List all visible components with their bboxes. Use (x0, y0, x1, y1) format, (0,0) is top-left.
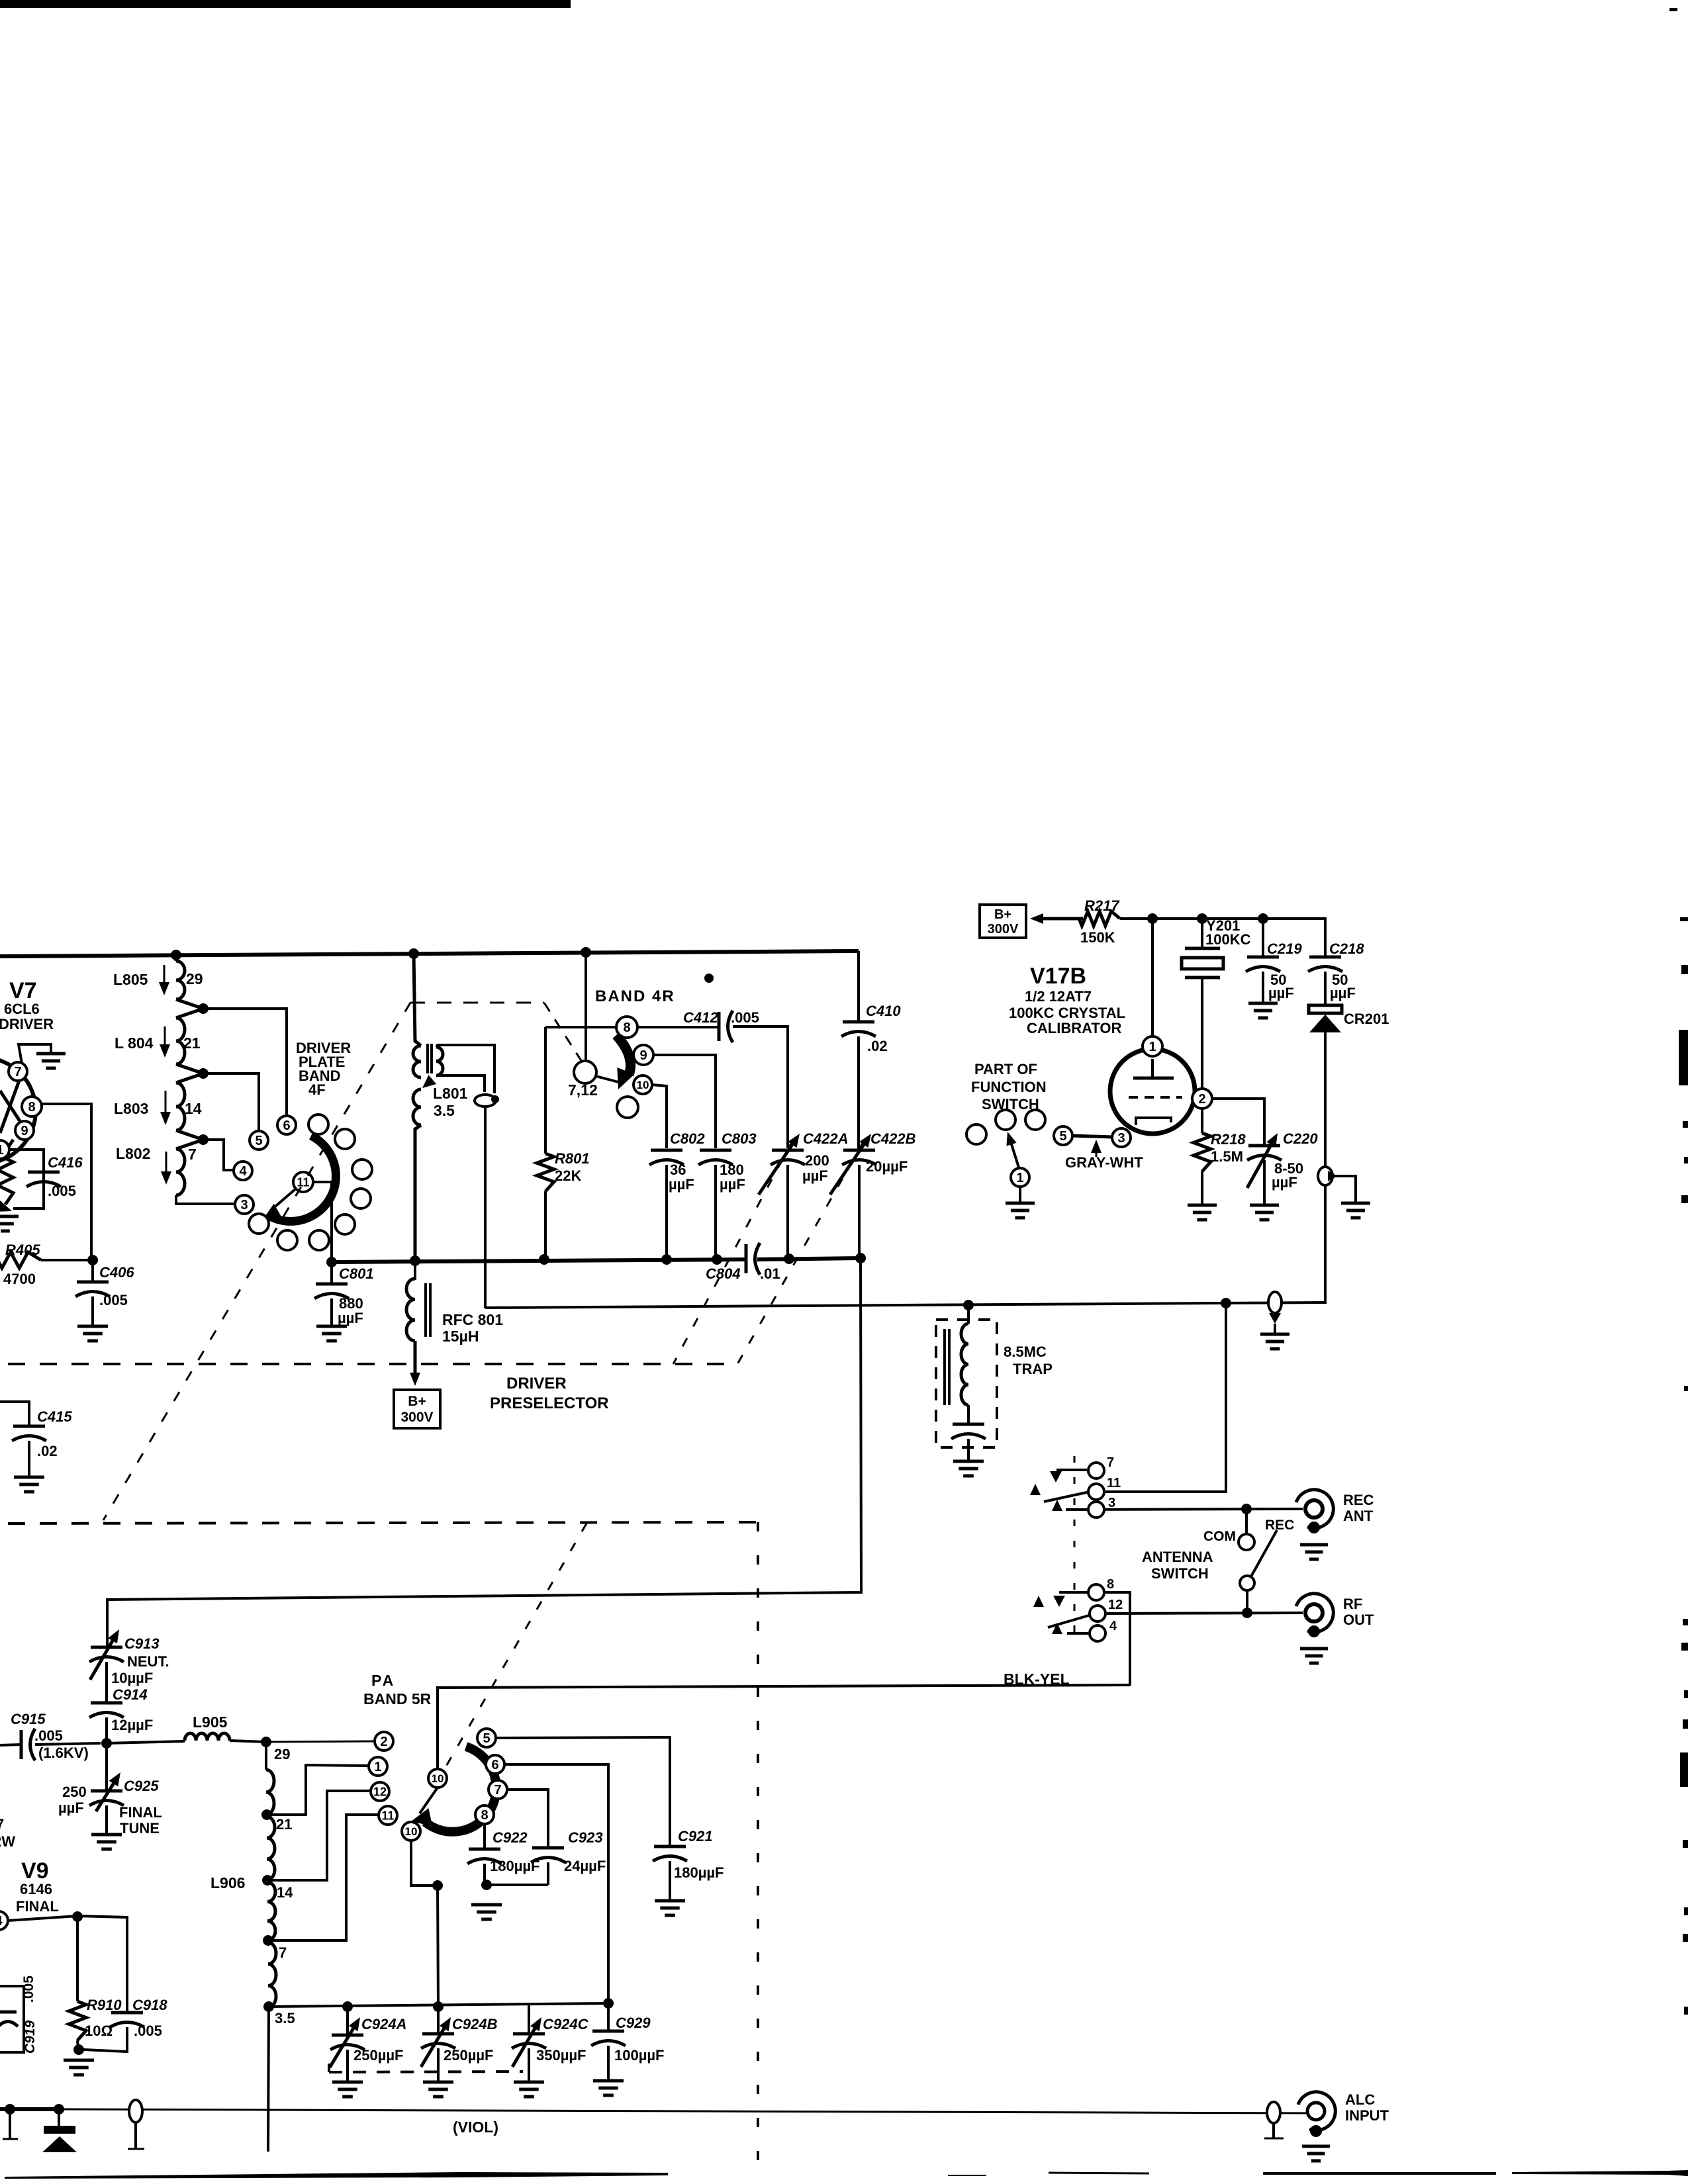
ground C406 (77, 1326, 108, 1341)
svg-text:C219: C219 (1267, 940, 1302, 957)
dashed link diagonal to preselector (103, 1003, 410, 1520)
ground V7 cathode (0, 1216, 19, 1231)
svg-text:100KC CRYSTAL: 100KC CRYSTAL (1009, 1005, 1125, 1021)
svg-text:.01: .01 (760, 1265, 780, 1282)
switch S-driver-plate contact 1 (308, 1115, 328, 1134)
wire R910 top leg (76, 1917, 79, 2001)
svg-text:FINAL: FINAL (119, 1804, 162, 1821)
ground C922 (471, 1905, 502, 1919)
label part of function switch (971, 1061, 1047, 1113)
capacitor C803 180uuF (698, 1130, 757, 1259)
node tap14 (198, 1134, 209, 1145)
svg-text:350µµF: 350µµF (536, 2047, 586, 2064)
svg-text:C921: C921 (678, 1828, 713, 1844)
wire pin7 to ground (19, 1044, 51, 1064)
svg-text:R801: R801 (555, 1150, 590, 1167)
node tap7 PA (263, 1935, 273, 1946)
wire left stub down (3, 2109, 18, 2139)
node bus-C802 (661, 1254, 672, 1265)
wire rotor10 lower down (411, 1841, 438, 1886)
svg-text:250µµF: 250µµF (353, 2047, 404, 2064)
svg-text:2: 2 (1198, 1092, 1205, 1107)
ground C924A (332, 2082, 363, 2097)
switch S-band4R thick arm (616, 1035, 634, 1089)
svg-text:R405: R405 (5, 1242, 40, 1258)
wire pin1 vertical (1151, 919, 1154, 1036)
ground C220 (1250, 1205, 1279, 1220)
node feedthrough (491, 1095, 499, 1103)
capacitor C929 100uuF (591, 2003, 665, 2081)
svg-text:V7: V7 (9, 978, 37, 1003)
B+ 300V box driver (394, 1390, 440, 1428)
node bus-L805 (171, 950, 181, 960)
label REC (1265, 1518, 1294, 1533)
svg-text:V9: V9 (21, 1858, 49, 1884)
label 14 PA (277, 1884, 293, 1901)
svg-text:11: 11 (381, 1809, 394, 1822)
contact 3 ant switch (1088, 1496, 1115, 1518)
svg-text:6CL6: 6CL6 (4, 1001, 40, 1017)
svg-text:300V: 300V (988, 922, 1019, 936)
wire C923 to C922 bottom (487, 1884, 548, 1886)
feedthrough on preselector line (1268, 1292, 1282, 1334)
tube V7 pin 1 (0, 1140, 9, 1159)
wire L804 jog (176, 1064, 203, 1073)
wire contact8 row (545, 1026, 719, 1028)
wire contact9 to C803 (653, 1055, 716, 1148)
inductor L803 (114, 1073, 203, 1130)
connector REC ANT (1296, 1490, 1374, 1559)
node ant switch 11 junction (1221, 1298, 1231, 1308)
node bus-C422B corner (855, 1253, 866, 1263)
svg-text:12: 12 (1108, 1598, 1123, 1612)
svg-text:C410: C410 (866, 1003, 901, 1019)
svg-text:6: 6 (283, 1118, 290, 1133)
wire arrow into B+ (1030, 913, 1083, 924)
capacitor C921 180uuF (653, 1828, 724, 1901)
switch S-driver-plate contact 2 (335, 1129, 355, 1149)
ground R218 (1188, 1205, 1217, 1220)
svg-text:8: 8 (623, 1021, 630, 1035)
resistor R217 150K (1079, 897, 1120, 946)
contact REC arm (1240, 1576, 1254, 1590)
wire rotor to arm (596, 1076, 621, 1083)
svg-text:BAND 4R: BAND 4R (595, 987, 675, 1005)
svg-text:PRESELECTOR: PRESELECTOR (490, 1394, 609, 1412)
inductor trap core (945, 1329, 949, 1405)
svg-text:ALC: ALC (1345, 2091, 1375, 2108)
capacitor C919 .005 (0, 1976, 38, 2054)
svg-text:1.5M: 1.5M (1211, 1148, 1243, 1165)
svg-text:10µµF: 10µµF (111, 1670, 153, 1686)
svg-text:15µH: 15µH (442, 1328, 479, 1345)
inductor L906 sec1 (266, 1742, 290, 1815)
svg-text:C422A: C422A (803, 1130, 848, 1147)
wire tap21 to contact 1 (267, 1765, 368, 1815)
svg-text:µµF: µµF (1330, 985, 1356, 1001)
ground preselector feedthrough (1260, 1334, 1289, 1349)
node C924B top (433, 2001, 444, 2012)
dashed box 8.5MC trap (936, 1320, 997, 1447)
svg-text:250µµF: 250µµF (444, 2047, 494, 2064)
switch arm REC (1251, 1530, 1277, 1576)
svg-text:µµF: µµF (720, 1176, 745, 1193)
ground C219 (1248, 1003, 1278, 1018)
label L906 (211, 1874, 245, 1891)
wire L803 jog (176, 1130, 203, 1140)
svg-text:24µµF: 24µµF (564, 1858, 606, 1874)
wire contact1 to ground (1019, 1187, 1021, 1203)
svg-text:ANT: ANT (1343, 1508, 1374, 1524)
svg-text:1: 1 (1016, 1171, 1023, 1185)
connector ALC INPUT (1264, 2091, 1389, 2161)
wire band4R rotor to bus (585, 952, 587, 1062)
ground C929 (593, 2081, 624, 2095)
capacitor C422A 200uuF variable (759, 1130, 848, 1259)
inductor trap coil (961, 1309, 968, 1405)
capacitor C218 50uuF (1308, 940, 1364, 1005)
svg-text:22K: 22K (555, 1167, 581, 1184)
svg-text:21: 21 (183, 1034, 201, 1052)
node bus-L801 (408, 948, 419, 959)
rotor 10 upper PA (428, 1769, 447, 1788)
switch arm PA (420, 1788, 438, 1813)
capacitor C918 .005 (83, 1997, 167, 2052)
inductor RFC 801 15uH (406, 1261, 503, 1345)
svg-text:2W: 2W (0, 1833, 15, 1850)
wire L805 jog (176, 999, 203, 1009)
wire pin2 to C220 (1212, 1099, 1264, 1146)
resistor R405 (0, 1242, 41, 1287)
switch function left contact (966, 1124, 986, 1144)
capacitor C412 .005 (683, 1009, 759, 1042)
svg-text:C915: C915 (11, 1711, 46, 1727)
capacitor C410 .02 (841, 1003, 901, 1150)
svg-text:7,12: 7,12 (568, 1081, 598, 1099)
svg-text:PA: PA (371, 1672, 395, 1689)
inductor L905 (107, 1713, 230, 1743)
node C219 top (1258, 913, 1268, 924)
svg-text:200: 200 (805, 1152, 829, 1169)
svg-text:µµF: µµF (1272, 1174, 1297, 1191)
svg-text:3.5: 3.5 (434, 1102, 455, 1119)
contact 10 band4R (633, 1075, 652, 1094)
inductor L801 tap arrow (422, 1075, 436, 1088)
svg-text:100KC: 100KC (1205, 931, 1251, 948)
svg-text:L805: L805 (113, 971, 148, 988)
capacitor C924B 250uuF variable (421, 2007, 498, 2082)
capacitor C801 880uuF (314, 1262, 374, 1326)
capacitor C914 12uuF (89, 1686, 153, 1743)
switch arm wire from 11 (271, 1189, 296, 1210)
contact 6 (277, 1116, 296, 1134)
svg-text:1: 1 (374, 1760, 381, 1774)
stray ink dot (704, 974, 714, 983)
svg-text:RF: RF (1343, 1596, 1362, 1612)
switch S-driver-plate contact 7 (277, 1230, 297, 1250)
wire contact5 to C921 (496, 1737, 670, 1846)
wire preselector line (485, 1302, 1325, 1308)
svg-text:14: 14 (277, 1884, 293, 1901)
inductor L906 sec4 (268, 1942, 276, 2007)
node tap14 PA (262, 1875, 273, 1886)
svg-text:REC: REC (1265, 1518, 1294, 1533)
label L804 turns 21 (183, 1034, 201, 1052)
svg-text:11: 11 (1107, 1476, 1121, 1490)
svg-text:3: 3 (240, 1198, 248, 1212)
tube V17B cathode (1136, 1118, 1171, 1125)
tube V17B pin 2 (1192, 1089, 1212, 1109)
dashed link to PA band5R (445, 1524, 586, 1768)
svg-text:BAND 5R: BAND 5R (363, 1690, 432, 1707)
svg-text:C919: C919 (23, 2020, 38, 2054)
tube V17B pin 5 (1054, 1126, 1072, 1145)
svg-text:29: 29 (274, 1746, 290, 1762)
wire tank bus right of C804 (757, 1258, 861, 1259)
svg-text:4: 4 (1109, 1619, 1117, 1633)
svg-text:L801: L801 (433, 1085, 468, 1102)
label BLK-YEL (1004, 1670, 1070, 1688)
switch rotor contact 11 (293, 1172, 313, 1192)
contact 12 ant switch (1090, 1598, 1123, 1621)
svg-text:C406: C406 (99, 1264, 134, 1281)
svg-text:14: 14 (185, 1100, 202, 1117)
contact 5 (250, 1131, 268, 1150)
capacitor trap (951, 1405, 986, 1461)
svg-text:C422B: C422B (870, 1130, 916, 1147)
dashed preselector boundary 1 (8, 1363, 735, 1365)
contact 4 ant switch (1090, 1619, 1117, 1641)
svg-text:.005: .005 (34, 1727, 63, 1744)
node tap21 PA (261, 1809, 272, 1820)
node C922 gnd (481, 1880, 492, 1890)
svg-text:GRAY-WHT: GRAY-WHT (1065, 1154, 1143, 1171)
svg-text:µµF: µµF (1268, 985, 1294, 1001)
label L803 turns 14 (185, 1100, 202, 1117)
svg-text:9: 9 (21, 1124, 28, 1138)
contact 4 (234, 1161, 252, 1180)
node REC tap (1241, 1504, 1252, 1514)
switch S-driver-plate thick arc (262, 1136, 336, 1221)
tube V7 envelope (0, 1058, 36, 1163)
wire R405 to C406 (41, 1259, 91, 1261)
contact 7b PA (489, 1780, 507, 1799)
wire contact 8 to corner (1059, 1592, 1130, 1686)
svg-text:SWITCH: SWITCH (1151, 1565, 1209, 1582)
label 7 PA (279, 1944, 287, 1961)
svg-text:10: 10 (637, 1079, 649, 1091)
contact 8 ant switch lower (1088, 1577, 1114, 1600)
svg-text:7: 7 (279, 1944, 287, 1961)
svg-text:C924C: C924C (543, 2016, 589, 2032)
resistor R910 10ohm (69, 1997, 122, 2049)
label V9 (16, 1858, 59, 1915)
contact blank band4R (617, 1097, 638, 1118)
wire tap7 to contact 11 (268, 1815, 378, 1940)
ground C921 (655, 1901, 685, 1915)
label 8.5MC trap (1004, 1343, 1053, 1377)
dashed trimmer gang link (329, 2064, 523, 2072)
svg-text:µµF: µµF (58, 1799, 84, 1816)
svg-text:L803: L803 (114, 1100, 148, 1117)
capacitor C925 250uuF FINAL TUNE variable (58, 1743, 162, 1837)
svg-text:DRIVER: DRIVER (0, 1016, 54, 1032)
triangle wiper up upper (1030, 1484, 1041, 1495)
svg-text:250: 250 (62, 1784, 87, 1800)
switch S-driver-plate contact 6 (309, 1230, 329, 1250)
capacitor C915 .005 1.6KV (11, 1711, 101, 1761)
ground C801 (316, 1326, 347, 1341)
svg-text:20µµF: 20µµF (866, 1158, 908, 1175)
svg-text:C924B: C924B (452, 2016, 498, 2032)
contact 9 band4R (633, 1045, 653, 1065)
inductor L801 core (428, 1044, 432, 1073)
label driver preselector (490, 1375, 609, 1412)
wire contact10 to C802 (652, 1085, 667, 1148)
capacitor C804 (.01) in bus (706, 1243, 780, 1282)
label antenna switch (1142, 1549, 1213, 1582)
capacitor C924C 350uuF variable (512, 2016, 589, 2082)
svg-text:100µµF: 100µµF (614, 2047, 665, 2064)
svg-text:µµF: µµF (802, 1167, 828, 1184)
inductor L802 (116, 1140, 203, 1195)
contact COM (1239, 1509, 1254, 1550)
wire junction down to contact 11 (1105, 1303, 1226, 1492)
svg-text:C918: C918 (132, 1997, 167, 2013)
node bus-band4R (581, 947, 591, 958)
inductor L906 sec2 (267, 1817, 275, 1880)
svg-text:21: 21 (276, 1816, 292, 1833)
node trap junction (963, 1300, 974, 1310)
svg-text:7: 7 (188, 1146, 197, 1163)
triangle wiper up lower2 (1052, 1623, 1062, 1634)
capacitor C924A 250uuF variable (330, 2007, 406, 2082)
node bus-C803 (712, 1254, 722, 1265)
wire R217 to corner (1120, 919, 1325, 957)
contact 3 (235, 1195, 254, 1214)
wire contact6 to C929 leg (504, 1764, 608, 2003)
capacitor C919 bracket (0, 1986, 24, 2052)
inductor L805 (113, 961, 185, 999)
svg-text:L 804: L 804 (115, 1034, 154, 1052)
node C924A top (342, 2001, 353, 2012)
wire 3.5 bus (269, 2003, 608, 2007)
svg-text:C925: C925 (124, 1778, 159, 1794)
node viol left (5, 2104, 15, 2115)
svg-text:L802: L802 (116, 1145, 150, 1162)
node Y201 top (1197, 913, 1207, 924)
svg-text:µµF: µµF (338, 1310, 363, 1326)
inductor L801 right winding (436, 1047, 443, 1075)
wire L801 top to feedthrough (436, 1045, 494, 1093)
svg-text:C914: C914 (113, 1686, 148, 1703)
switch arm lower (1048, 1615, 1091, 1627)
svg-text:RFC 801: RFC 801 (442, 1311, 503, 1328)
svg-text:C913: C913 (124, 1635, 160, 1652)
svg-text:C801: C801 (339, 1265, 374, 1282)
contact 12 PA (371, 1782, 389, 1801)
svg-text:3: 3 (1108, 1496, 1115, 1510)
node tap3.5 PA (263, 2001, 274, 2012)
contact 8 PA (475, 1805, 494, 1824)
wire C410 leg (857, 951, 860, 1022)
label BAND 4R (595, 987, 675, 1005)
wire C915 left (0, 1745, 21, 1745)
svg-text:CR201: CR201 (1344, 1011, 1389, 1027)
svg-text:(1.6KV): (1.6KV) (38, 1745, 89, 1761)
svg-text:µµF: µµF (669, 1176, 694, 1193)
svg-text:2: 2 (380, 1735, 387, 1749)
tube V7 pin 7 (9, 1062, 27, 1081)
label COM (1203, 1529, 1236, 1544)
rotor 10 lower PA (402, 1822, 420, 1841)
capacitor C406 (75, 1260, 134, 1326)
wire pin4 to R910 (8, 1916, 127, 2013)
contact 11 ant switch (1088, 1476, 1121, 1500)
switch function mid contact (996, 1110, 1015, 1130)
wire PA plate corner (438, 1685, 1130, 1778)
dashed link C422B (737, 1140, 865, 1364)
wire L805 top (175, 955, 178, 961)
svg-text:12µµF: 12µµF (111, 1717, 153, 1733)
svg-text:3.5: 3.5 (275, 2010, 295, 2026)
wire contact8 to C922 (483, 1824, 486, 1849)
wire tap29 to contact 6 (203, 1009, 287, 1115)
bottom edge artifacts (5, 2170, 1688, 2179)
ground R910 (64, 2060, 94, 2075)
wire feedthrough down to preselector line (484, 1107, 487, 1308)
ground trap (953, 1461, 984, 1476)
wire L905 to contact 2 (230, 1741, 373, 1742)
label L805 turns 29 (186, 970, 203, 987)
triangle wiper down upper (1050, 1471, 1062, 1482)
resistor R801 22K (537, 1150, 590, 1259)
svg-text:7: 7 (1107, 1455, 1114, 1470)
dashed link C422A (673, 1140, 793, 1364)
triangle wiper up upper2 (1052, 1500, 1062, 1511)
svg-text:.005: .005 (134, 2023, 162, 2039)
label L801 (433, 1085, 468, 1119)
triangle wiper down lower (1053, 1596, 1065, 1607)
wire L801 top (414, 954, 421, 1046)
wire plate line to PA (107, 1258, 861, 1647)
switch S-driver-plate contact 8 (249, 1214, 269, 1234)
wire CR201 leg corner (1324, 1297, 1327, 1302)
label V17B (1009, 964, 1125, 1036)
contact 11 PA (379, 1806, 397, 1825)
wire C415 from left (0, 1402, 29, 1426)
svg-text:C416: C416 (48, 1154, 83, 1171)
wire C412 to C422A (733, 1026, 788, 1148)
capacitor C913 NEUT 10uuF variable (89, 1629, 169, 1703)
node final tune (101, 1738, 112, 1749)
node bus-C422A (784, 1253, 794, 1264)
tube V7 pin 8 (22, 1097, 42, 1116)
svg-text:6: 6 (491, 1758, 498, 1772)
svg-text:C803: C803 (722, 1130, 757, 1147)
diode bottom left (42, 2109, 77, 2152)
label driver plate band 4F (296, 1040, 351, 1098)
resistor V7 cathode (0, 1158, 13, 1212)
svg-text:C220: C220 (1283, 1130, 1318, 1147)
node R405/C406 (87, 1255, 98, 1265)
svg-text:10: 10 (432, 1772, 444, 1785)
svg-text:3: 3 (1117, 1131, 1125, 1146)
wire bottom violet line heavy (0, 2107, 62, 2111)
ground CR201 feedthrough (1341, 1203, 1370, 1218)
svg-text:C922: C922 (492, 1829, 528, 1846)
switch S-driver-plate contact 3 (352, 1160, 372, 1179)
